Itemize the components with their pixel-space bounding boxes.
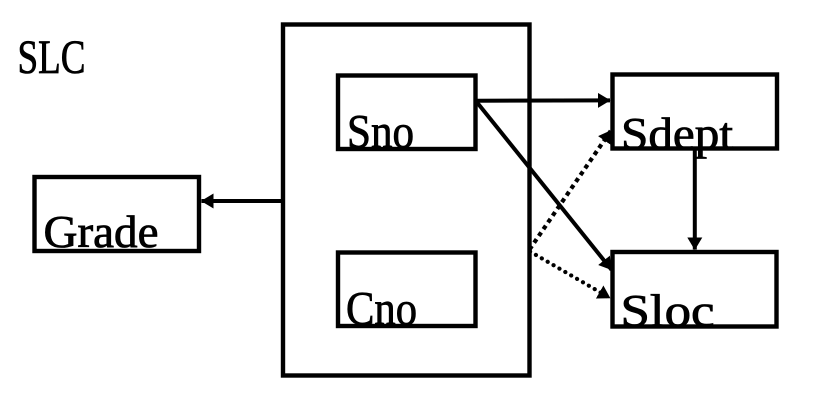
svg-text:Sno: Sno xyxy=(347,106,414,159)
svg-text:Grade: Grade xyxy=(44,207,159,257)
svg-text:Cno: Cno xyxy=(346,283,417,336)
svg-text:Sloc: Sloc xyxy=(621,286,715,336)
svg-text:Sdept: Sdept xyxy=(621,109,734,159)
svg-text:SLC: SLC xyxy=(18,31,86,84)
